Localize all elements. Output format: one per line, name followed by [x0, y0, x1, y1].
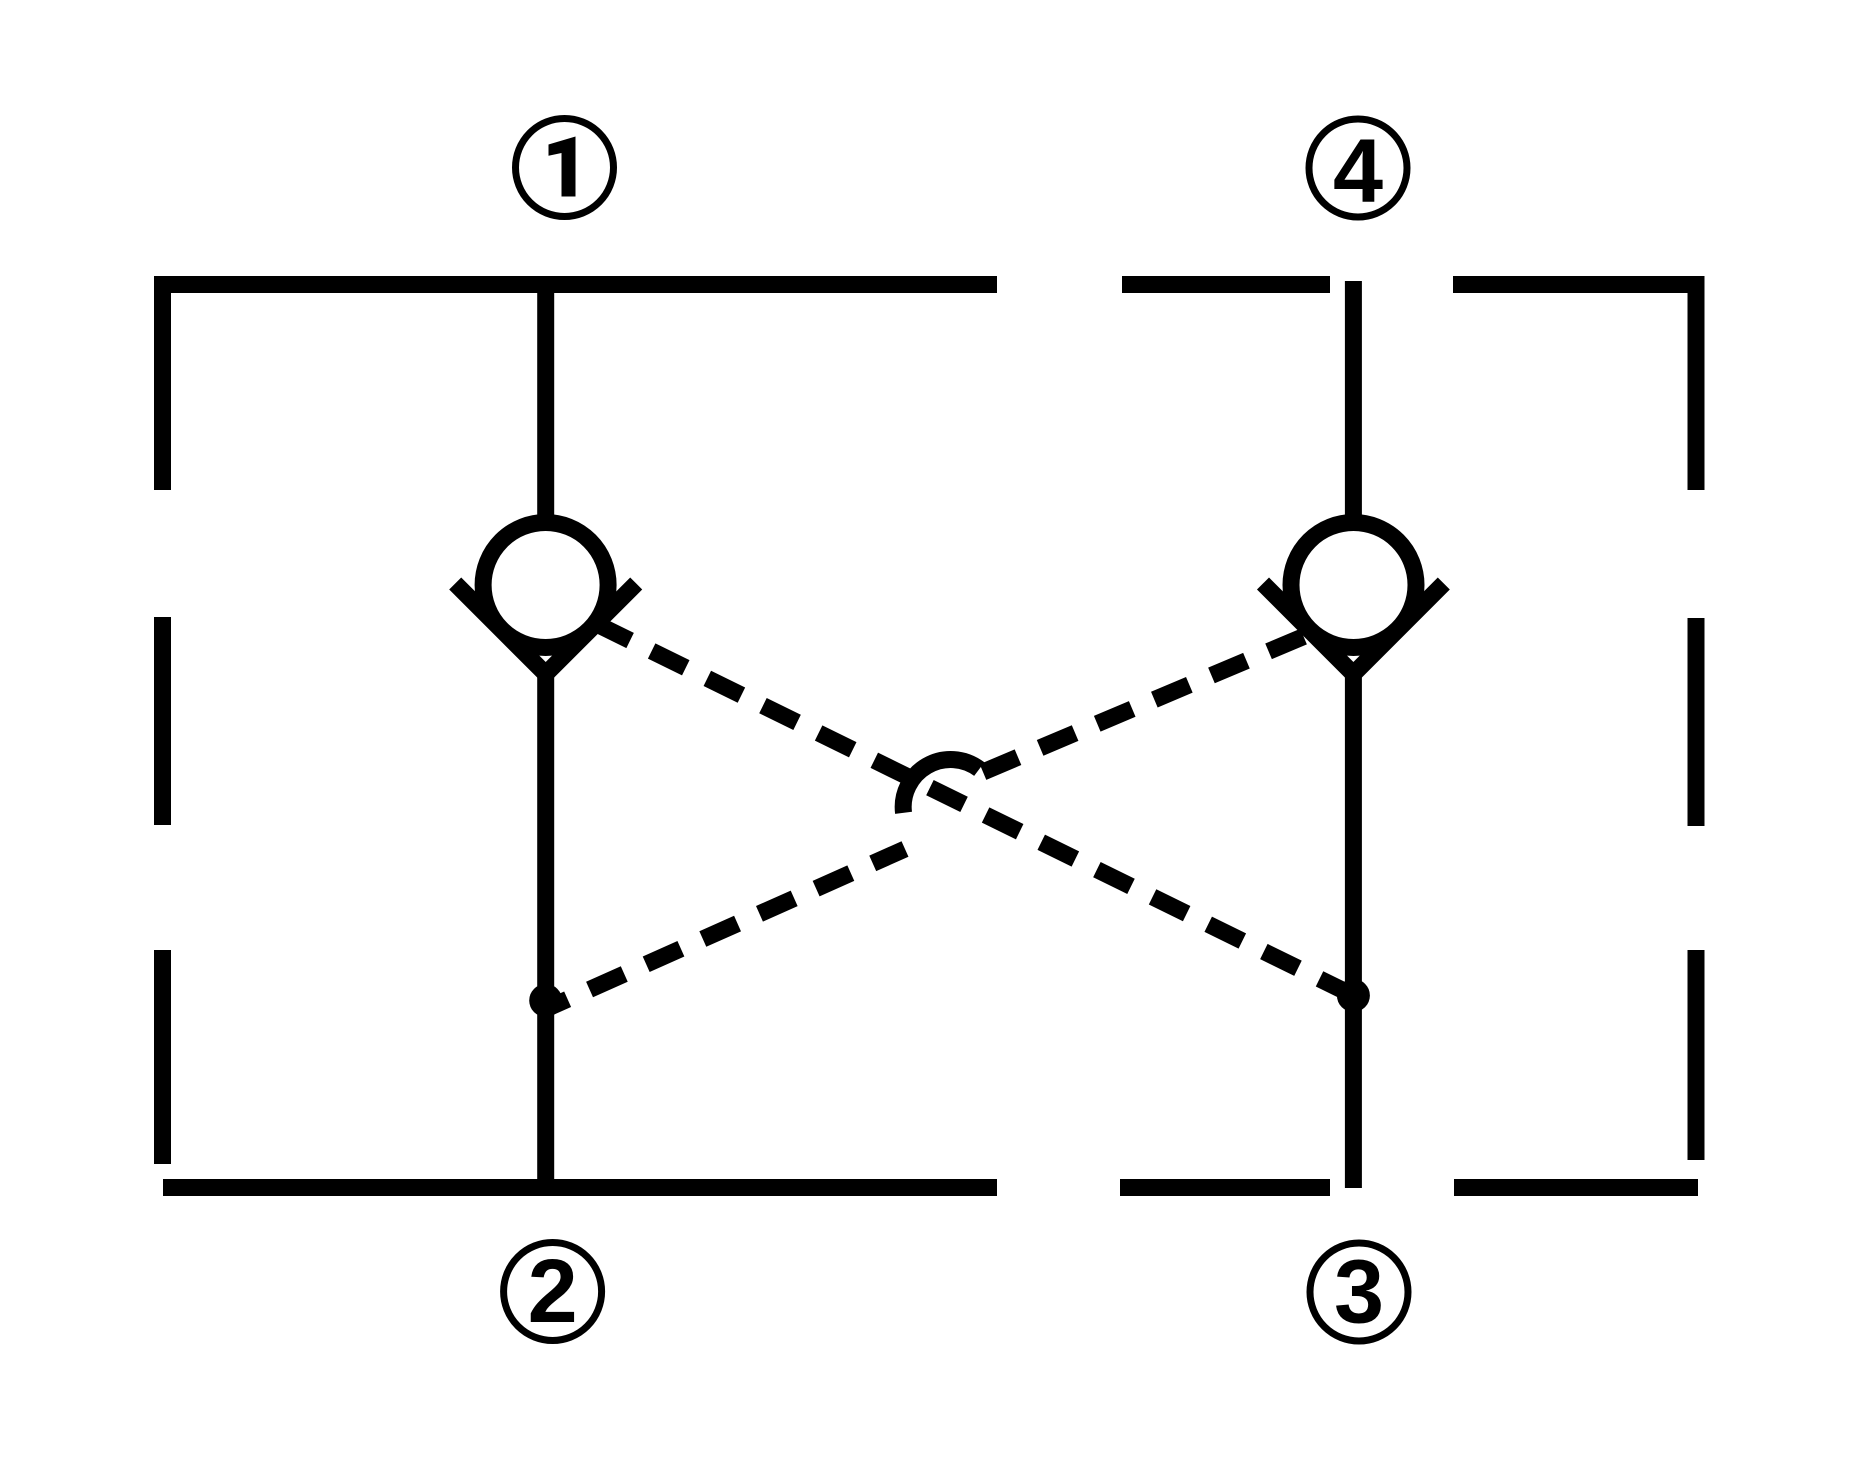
junction node A — [529, 984, 562, 1017]
enclosure top-right corner dash — [1453, 285, 1696, 491]
svg-text:3: 3 — [1334, 1243, 1384, 1343]
enclosure left border dash 2 — [154, 617, 171, 825]
svg-text:4: 4 — [1333, 122, 1383, 222]
wire from port 4 line to check valve CV2 — [1345, 281, 1362, 520]
crossover hop bridge — [903, 759, 979, 812]
svg-text:2: 2 — [528, 1242, 578, 1342]
port 1 circle — [516, 119, 614, 217]
port 2 circle — [504, 1243, 602, 1341]
check valve CV1 seat — [455, 584, 636, 675]
enclosure bottom border dash 2 — [1120, 1179, 1330, 1196]
wire from check valve CV1 to port 2 line — [537, 668, 554, 1188]
enclosure bottom solid segment — [163, 1179, 997, 1196]
enclosure top-left corner and top solid segment — [163, 285, 998, 491]
enclosure bottom border dash 3 — [1454, 1179, 1698, 1196]
enclosure left border dash 3 — [154, 950, 171, 1164]
port 1 label "1" — [549, 137, 576, 197]
pilot line from node A toward crossover (dashed) — [546, 849, 905, 1009]
wire from port 1 line to check valve CV1 — [537, 285, 554, 521]
pilot line from crossover to CV2 seat (dashed) — [983, 633, 1312, 772]
check valve CV2 ball — [1291, 523, 1416, 648]
port 3 circle — [1310, 1243, 1408, 1341]
enclosure right border dash 2 — [1688, 618, 1705, 826]
pilot line from CV1 seat to node B (dashed) — [596, 624, 1353, 996]
enclosure right border dash 3 — [1688, 950, 1705, 1160]
enclosure top border dash — [1122, 276, 1330, 293]
check valve CV2 seat — [1263, 584, 1444, 675]
junction node B — [1337, 979, 1370, 1012]
check valve CV1 ball — [483, 523, 608, 648]
port 4 circle — [1309, 119, 1407, 217]
wire from check valve CV2 to port 3 line — [1345, 668, 1362, 1188]
